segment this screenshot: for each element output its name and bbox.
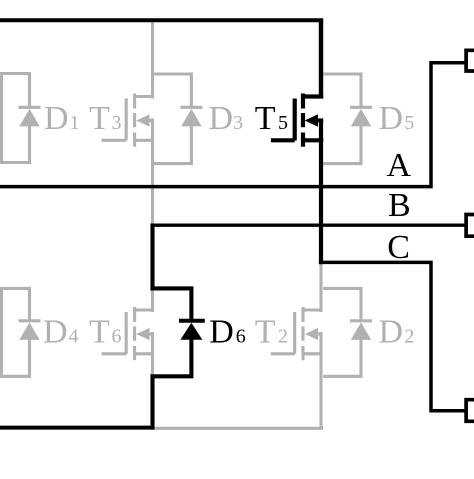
load box phase A (466, 50, 474, 71)
transistor T6 source wire (151, 332, 154, 376)
transistor T5 (271, 94, 323, 147)
svg-text:2: 2 (404, 325, 414, 347)
load box phase C (466, 400, 474, 422)
negative DC rail gray segment wire (151, 427, 323, 430)
svg-text:1: 1 (70, 112, 80, 134)
svg-text:D: D (209, 100, 234, 137)
label D3 (209, 100, 244, 137)
svg-text:3: 3 (233, 112, 243, 134)
transistor T5 drain wire (319, 20, 323, 98)
svg-text:T: T (89, 100, 110, 137)
positive DC rail wire (0, 18, 323, 22)
svg-text:5: 5 (278, 112, 288, 134)
svg-text:D: D (44, 100, 69, 137)
label T6 (89, 313, 122, 350)
diode D4 (19, 321, 41, 340)
svg-text:5: 5 (404, 112, 414, 134)
label D2 (379, 313, 415, 350)
phase A wire (0, 63, 466, 187)
transistor T2 (271, 307, 323, 360)
transistor T3 body arrow (136, 114, 149, 126)
transistor T6 (102, 307, 155, 360)
svg-text:T: T (89, 313, 110, 350)
svg-text:3: 3 (112, 112, 122, 134)
diode D2 loop wire (323, 288, 361, 376)
label T5 (255, 100, 288, 137)
svg-text:6: 6 (236, 325, 246, 347)
transistor T6 body arrow (136, 328, 149, 340)
transistor T2 source wire (319, 332, 322, 428)
diode D4 loop wire (2, 288, 30, 376)
transistor T3 (102, 94, 155, 147)
diode D3 (180, 107, 202, 126)
phase B feed wire to D6 (153, 224, 192, 320)
diode D3 loop wire (153, 74, 192, 164)
transistor T2 body arrow (305, 328, 318, 340)
transistor T3 source wire (151, 119, 154, 226)
negative DC rail black segment wire (0, 426, 155, 430)
label D5 (379, 100, 415, 137)
diode D6 lower wire (153, 339, 192, 428)
svg-text:D: D (43, 313, 68, 350)
svg-text:D: D (379, 313, 404, 350)
svg-text:B: B (388, 187, 411, 224)
svg-text:6: 6 (112, 325, 122, 347)
phase C routing wire (319, 262, 466, 410)
phase B wire (151, 223, 466, 226)
diode D1 (19, 107, 41, 126)
diode D1 loop wire (2, 74, 30, 163)
svg-text:D: D (379, 100, 404, 137)
svg-text:4: 4 (69, 325, 79, 347)
diode D5 (350, 107, 372, 126)
label T3 (89, 100, 122, 137)
svg-text:T: T (255, 313, 276, 350)
label D1 (44, 100, 80, 137)
phase C wire from T5 source (319, 119, 323, 265)
svg-text:C: C (387, 229, 410, 266)
transistor T6 drain stub wire (151, 288, 154, 312)
load box phase B (466, 215, 474, 237)
svg-text:T: T (255, 100, 276, 137)
label T2 (255, 313, 288, 350)
transistor T3 drain stub wire (151, 20, 154, 98)
svg-text:A: A (387, 147, 412, 184)
diode D6 (179, 321, 205, 340)
label D6 (209, 313, 246, 350)
svg-text:2: 2 (278, 325, 288, 347)
transistor T5 body arrow (305, 114, 318, 127)
label D4 (43, 313, 79, 350)
diode D5 loop wire (323, 74, 361, 164)
diode D2 (350, 321, 372, 340)
svg-text:D: D (209, 313, 234, 350)
transistor T2 drain stub wire (319, 262, 322, 312)
